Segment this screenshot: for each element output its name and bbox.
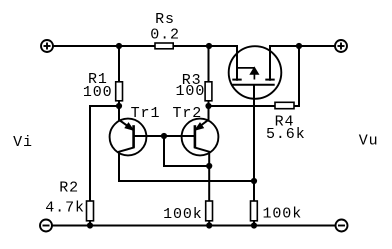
wire Tr1 emitter lead <box>119 106 133 130</box>
transistor Tr1 <box>110 119 147 156</box>
node dot 100k right bottom <box>251 222 257 228</box>
node dot rail-right <box>296 43 302 49</box>
svg-text:4.7k: 4.7k <box>45 199 85 216</box>
terminal - bottom left <box>40 220 52 232</box>
gate plate <box>232 84 274 86</box>
resistor R4 <box>275 102 294 108</box>
wire MOSFET gate lead down <box>253 85 255 226</box>
svg-text:0.2: 0.2 <box>150 27 180 44</box>
svg-text:Rs: Rs <box>155 11 175 28</box>
wire R1 branch <box>118 46 120 106</box>
bulk arrow <box>250 67 258 74</box>
node dot rail-R3 <box>206 43 212 49</box>
node dot gate-collector <box>251 178 257 184</box>
wire node to R2 <box>90 106 119 226</box>
resistor Rs <box>155 43 173 49</box>
resistor R2 <box>87 201 94 221</box>
svg-text:R2: R2 <box>59 179 79 196</box>
svg-text:100k: 100k <box>262 205 302 222</box>
resistor R3 <box>205 82 212 101</box>
wire top rail right section <box>270 46 335 80</box>
wire bottom rail <box>52 225 336 227</box>
transistor Tr2 <box>182 119 219 156</box>
node dot rail-R1 <box>116 43 122 49</box>
svg-text:Tr2: Tr2 <box>172 105 202 122</box>
wire base jog down <box>164 136 209 166</box>
svg-text:100k: 100k <box>163 206 203 223</box>
wire Tr2 emitter lead <box>195 106 208 130</box>
bulk stem <box>253 74 255 80</box>
bulk wire <box>237 67 254 69</box>
wire Tr1 collector to gate node <box>119 148 254 181</box>
wire node to R4 to right rail <box>209 46 300 106</box>
svg-text:5.6k: 5.6k <box>266 126 306 143</box>
wire R3 branch <box>208 46 210 106</box>
wire base bus Tr1-Tr2 <box>134 135 195 137</box>
svg-text:Vi: Vi <box>13 134 33 151</box>
resistor 100k right <box>251 201 258 221</box>
resistor R1 <box>116 82 123 101</box>
node dot R1 bottom <box>116 103 122 109</box>
source tick left <box>232 79 241 81</box>
node dot R2 bottom <box>87 222 93 228</box>
svg-text:Tr1: Tr1 <box>131 105 161 122</box>
node dot base bus <box>161 133 167 139</box>
svg-text:100: 100 <box>83 84 113 101</box>
terminal + top right <box>335 40 347 52</box>
drain tick right <box>265 79 274 81</box>
node dot 100k left bottom <box>206 222 212 228</box>
terminal - bottom right <box>336 220 348 232</box>
svg-text:100: 100 <box>176 83 206 100</box>
wire top rail left section <box>53 46 237 80</box>
MOSFET U1 <box>229 46 282 99</box>
resistor 100k left <box>206 201 213 221</box>
node dot R3 bottom <box>205 103 211 109</box>
terminal + top left <box>41 40 53 52</box>
node dot jog-collector <box>206 163 212 169</box>
wire Tr2 collector down <box>195 148 209 226</box>
svg-text:Vu: Vu <box>359 133 379 150</box>
